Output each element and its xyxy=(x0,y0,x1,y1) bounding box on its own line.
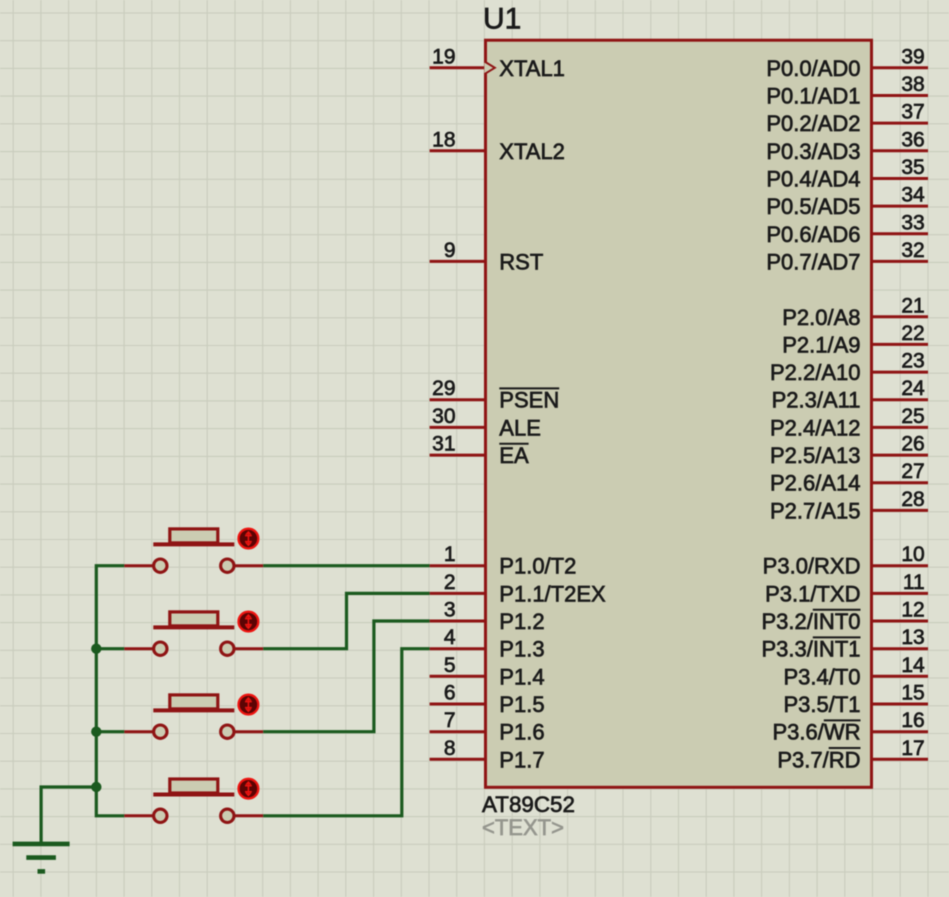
svg-text:P3.3/INT1: P3.3/INT1 xyxy=(761,637,860,662)
pin 39 P0.0/AD0 (right) xyxy=(766,45,928,81)
svg-text:12: 12 xyxy=(901,599,924,622)
svg-text:P3.6/WR: P3.6/WR xyxy=(772,720,860,745)
svg-text:P2.0/A8: P2.0/A8 xyxy=(782,305,860,330)
svg-text:15: 15 xyxy=(901,682,924,705)
pin 31 EA (left) xyxy=(430,433,529,469)
svg-text:26: 26 xyxy=(901,433,924,456)
wire bus to pushbutton 2 xyxy=(96,647,124,650)
svg-text:33: 33 xyxy=(901,211,924,234)
svg-text:2: 2 xyxy=(444,571,456,594)
pin 36 P0.3/AD3 (right) xyxy=(766,128,928,164)
pushbutton 4 actuate marker xyxy=(239,779,259,799)
pin 6 P1.5 (left) xyxy=(430,682,545,718)
svg-text:22: 22 xyxy=(901,322,924,345)
svg-text:P2.2/A10: P2.2/A10 xyxy=(770,360,861,385)
pin 22 P2.1/A9 (right) xyxy=(782,322,928,358)
pin 29 PSEN (left) xyxy=(430,377,560,413)
svg-text:9: 9 xyxy=(444,239,456,262)
svg-text:AT89C52: AT89C52 xyxy=(482,792,575,817)
wire pushbutton 2 to pin 2 P1.1/T2EX xyxy=(263,593,429,648)
svg-text:32: 32 xyxy=(901,239,924,262)
pin 28 P2.7/A15 (right) xyxy=(770,488,928,524)
svg-text:3: 3 xyxy=(444,599,456,622)
svg-text:31: 31 xyxy=(432,433,455,456)
svg-text:1: 1 xyxy=(444,543,456,566)
pin 2 P1.1/T2EX (left) xyxy=(430,571,606,607)
svg-text:XTAL2: XTAL2 xyxy=(499,139,565,164)
pushbutton 2 xyxy=(124,612,263,656)
svg-text:P0.3/AD3: P0.3/AD3 xyxy=(766,139,860,164)
svg-text:7: 7 xyxy=(444,709,456,732)
svg-text:P1.0/T2: P1.0/T2 xyxy=(499,554,576,579)
svg-text:35: 35 xyxy=(901,156,924,179)
wire ground bus (left vertical with corners to buttons 1 and 4) xyxy=(96,566,124,816)
pin 3 P1.2 (left) xyxy=(430,599,545,635)
svg-text:38: 38 xyxy=(901,73,924,96)
pin 4 P1.3 (left) xyxy=(430,626,545,662)
pin 17 P3.7/RD (right) xyxy=(777,737,928,773)
svg-text:30: 30 xyxy=(432,405,455,428)
svg-text:23: 23 xyxy=(901,350,924,373)
pin 24 P2.3/A11 (right) xyxy=(772,377,928,413)
pin 26 P2.5/A13 (right) xyxy=(770,433,928,469)
svg-text:P0.1/AD1: P0.1/AD1 xyxy=(766,84,860,109)
pin 27 P2.6/A14 (right) xyxy=(770,460,928,496)
svg-text:P2.7/A15: P2.7/A15 xyxy=(770,498,861,523)
svg-text:24: 24 xyxy=(901,377,925,400)
svg-text:6: 6 xyxy=(444,682,456,705)
svg-text:36: 36 xyxy=(901,128,924,151)
pushbutton 1 actuate marker xyxy=(239,529,259,549)
svg-text:34: 34 xyxy=(901,184,925,207)
svg-text:P0.6/AD6: P0.6/AD6 xyxy=(766,222,860,247)
pin 18 XTAL2 (left) xyxy=(430,128,565,164)
pushbutton 1 xyxy=(124,529,263,573)
svg-text:P0.0/AD0: P0.0/AD0 xyxy=(766,56,860,81)
svg-text:P2.4/A12: P2.4/A12 xyxy=(770,415,861,440)
junction dot at bus / ground branch xyxy=(91,782,101,792)
wire bus to pushbutton 3 xyxy=(96,730,124,733)
pin 35 P0.4/AD4 (right) xyxy=(766,156,928,192)
pin 10 P3.0/RXD (right) xyxy=(763,543,928,579)
pin 7 P1.6 (left) xyxy=(430,709,545,745)
svg-text:U1: U1 xyxy=(483,3,521,36)
svg-text:ALE: ALE xyxy=(499,415,541,440)
pin 1 P1.0/T2 (left) xyxy=(430,543,577,579)
svg-text:25: 25 xyxy=(901,405,924,428)
wire pushbutton 4 to pin 4 P1.3 xyxy=(263,649,429,816)
svg-text:13: 13 xyxy=(901,626,924,649)
svg-text:EA: EA xyxy=(499,443,529,468)
svg-text:P3.4/T0: P3.4/T0 xyxy=(783,664,860,689)
svg-text:19: 19 xyxy=(432,45,455,68)
wire ground branch xyxy=(41,787,96,844)
pin 23 P2.2/A10 (right) xyxy=(770,350,928,386)
wire pushbutton 3 to pin 3 P1.2 xyxy=(263,621,429,732)
svg-text:P0.4/AD4: P0.4/AD4 xyxy=(766,167,860,192)
svg-text:P0.2/AD2: P0.2/AD2 xyxy=(766,111,860,136)
svg-text:10: 10 xyxy=(901,543,924,566)
junction dot at bus / button 2 xyxy=(91,644,101,654)
svg-text:P3.7/RD: P3.7/RD xyxy=(777,747,860,772)
pin 15 P3.5/T1 (right) xyxy=(783,682,928,718)
svg-text:<TEXT>: <TEXT> xyxy=(482,815,564,840)
svg-text:P1.6: P1.6 xyxy=(499,720,544,745)
pushbutton 2 actuate marker xyxy=(239,612,259,632)
pin 9 RST (left) xyxy=(430,239,544,275)
svg-text:RST: RST xyxy=(499,249,543,274)
junction dot at bus / button 3 xyxy=(91,727,101,737)
svg-text:P1.1/T2EX: P1.1/T2EX xyxy=(499,581,606,606)
svg-text:28: 28 xyxy=(901,488,924,511)
svg-text:P1.3: P1.3 xyxy=(499,637,544,662)
pin 38 P0.1/AD1 (right) xyxy=(766,73,928,109)
pin 11 P3.1/TXD (right) xyxy=(765,571,928,607)
pushbutton 3 xyxy=(124,695,263,739)
pushbutton 4 xyxy=(124,779,263,823)
pin 5 P1.4 (left) xyxy=(430,654,545,690)
pin 8 P1.7 (left) xyxy=(430,737,545,773)
svg-text:27: 27 xyxy=(901,460,924,483)
svg-text:P2.1/A9: P2.1/A9 xyxy=(782,332,860,357)
svg-text:P2.6/A14: P2.6/A14 xyxy=(770,471,861,496)
svg-text:P3.1/TXD: P3.1/TXD xyxy=(765,581,860,606)
ground symbol xyxy=(13,844,70,872)
pin 12 P3.2/INT0 (right) xyxy=(761,599,928,635)
svg-text:5: 5 xyxy=(444,654,456,677)
pin 19 XTAL1 (left) xyxy=(430,45,565,81)
pin 30 ALE (left) xyxy=(430,405,541,441)
pin 37 P0.2/AD2 (right) xyxy=(766,101,928,137)
svg-text:29: 29 xyxy=(432,377,455,400)
svg-text:P3.5/T1: P3.5/T1 xyxy=(783,692,860,717)
svg-text:P1.4: P1.4 xyxy=(499,664,544,689)
pin 34 P0.5/AD5 (right) xyxy=(766,184,928,220)
pin 14 P3.4/T0 (right) xyxy=(783,654,928,690)
svg-text:P2.5/A13: P2.5/A13 xyxy=(770,443,861,468)
svg-text:XTAL1: XTAL1 xyxy=(499,56,565,81)
pushbutton 3 actuate marker xyxy=(239,695,259,715)
pin 32 P0.7/AD7 (right) xyxy=(766,239,928,275)
svg-text:PSEN: PSEN xyxy=(499,388,559,413)
svg-text:18: 18 xyxy=(432,128,455,151)
svg-text:P1.2: P1.2 xyxy=(499,609,544,634)
svg-text:14: 14 xyxy=(901,654,925,677)
svg-text:P1.5: P1.5 xyxy=(499,692,544,717)
pin 16 P3.6/WR (right) xyxy=(772,709,928,745)
svg-text:17: 17 xyxy=(901,737,924,760)
svg-text:37: 37 xyxy=(901,101,924,124)
svg-text:P1.7: P1.7 xyxy=(499,747,544,772)
svg-text:21: 21 xyxy=(901,294,924,317)
svg-text:P3.2/INT0: P3.2/INT0 xyxy=(761,609,860,634)
svg-text:P3.0/RXD: P3.0/RXD xyxy=(763,554,861,579)
svg-text:11: 11 xyxy=(903,571,925,594)
svg-text:39: 39 xyxy=(901,45,924,68)
pin 13 P3.3/INT1 (right) xyxy=(761,626,928,662)
wire pushbutton 1 to pin 1 P1.0/T2 xyxy=(263,564,429,567)
svg-text:4: 4 xyxy=(444,626,456,649)
pin 25 P2.4/A12 (right) xyxy=(770,405,928,441)
svg-text:P2.3/A11: P2.3/A11 xyxy=(772,388,861,413)
svg-text:16: 16 xyxy=(901,709,924,732)
pin 21 P2.0/A8 (right) xyxy=(782,294,928,330)
IC U1 AT89C52 body xyxy=(486,40,872,787)
svg-text:P0.7/AD7: P0.7/AD7 xyxy=(766,249,860,274)
svg-text:P0.5/AD5: P0.5/AD5 xyxy=(766,194,860,219)
svg-text:8: 8 xyxy=(444,737,456,760)
pin 33 P0.6/AD6 (right) xyxy=(766,211,928,247)
